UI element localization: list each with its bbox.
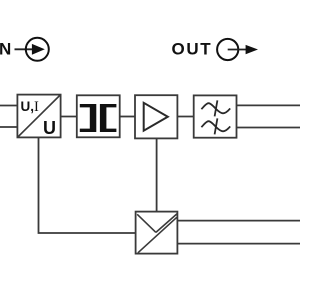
svg-text:OUT: OUT [172, 39, 213, 58]
wire IN lead [15, 48, 33, 50]
wire A1 down to P1 [156, 138, 158, 211]
svg-text:U: U [43, 118, 56, 138]
F1 wave 1 [201, 100, 230, 116]
wire U1 down to P1 [39, 137, 136, 233]
block F1 filter [194, 95, 237, 137]
block T1 isolation transformer [77, 95, 120, 137]
wire U1 to T1 [61, 116, 77, 118]
OUT lead wire [228, 49, 247, 51]
wire T1 to A1 [120, 116, 135, 118]
A1 triangle [144, 103, 168, 131]
wire aux output 2 [177, 243, 300, 245]
P1 symbol [137, 214, 177, 253]
block U1 input converter [17, 95, 60, 138]
wire input 1 [0, 105, 17, 107]
T1 core symbol [80, 104, 117, 132]
IN arrow [32, 44, 45, 55]
F1 wave 2 [201, 118, 230, 134]
block A1 amplifier [135, 95, 177, 138]
svg-text:N: N [0, 39, 11, 58]
wire input 2 [0, 126, 17, 128]
wire output bottom [237, 127, 301, 129]
svg-text:U,I: U,I [21, 99, 40, 115]
block P1 output stage [136, 212, 178, 254]
OUT arrow [246, 45, 258, 54]
IN source circle [26, 38, 49, 61]
OUT source circle [217, 39, 238, 60]
wire output top [237, 104, 301, 106]
wire A1 to F1 [177, 116, 193, 118]
wire aux output 1 [177, 220, 300, 222]
U1 diagonal [18, 95, 60, 137]
